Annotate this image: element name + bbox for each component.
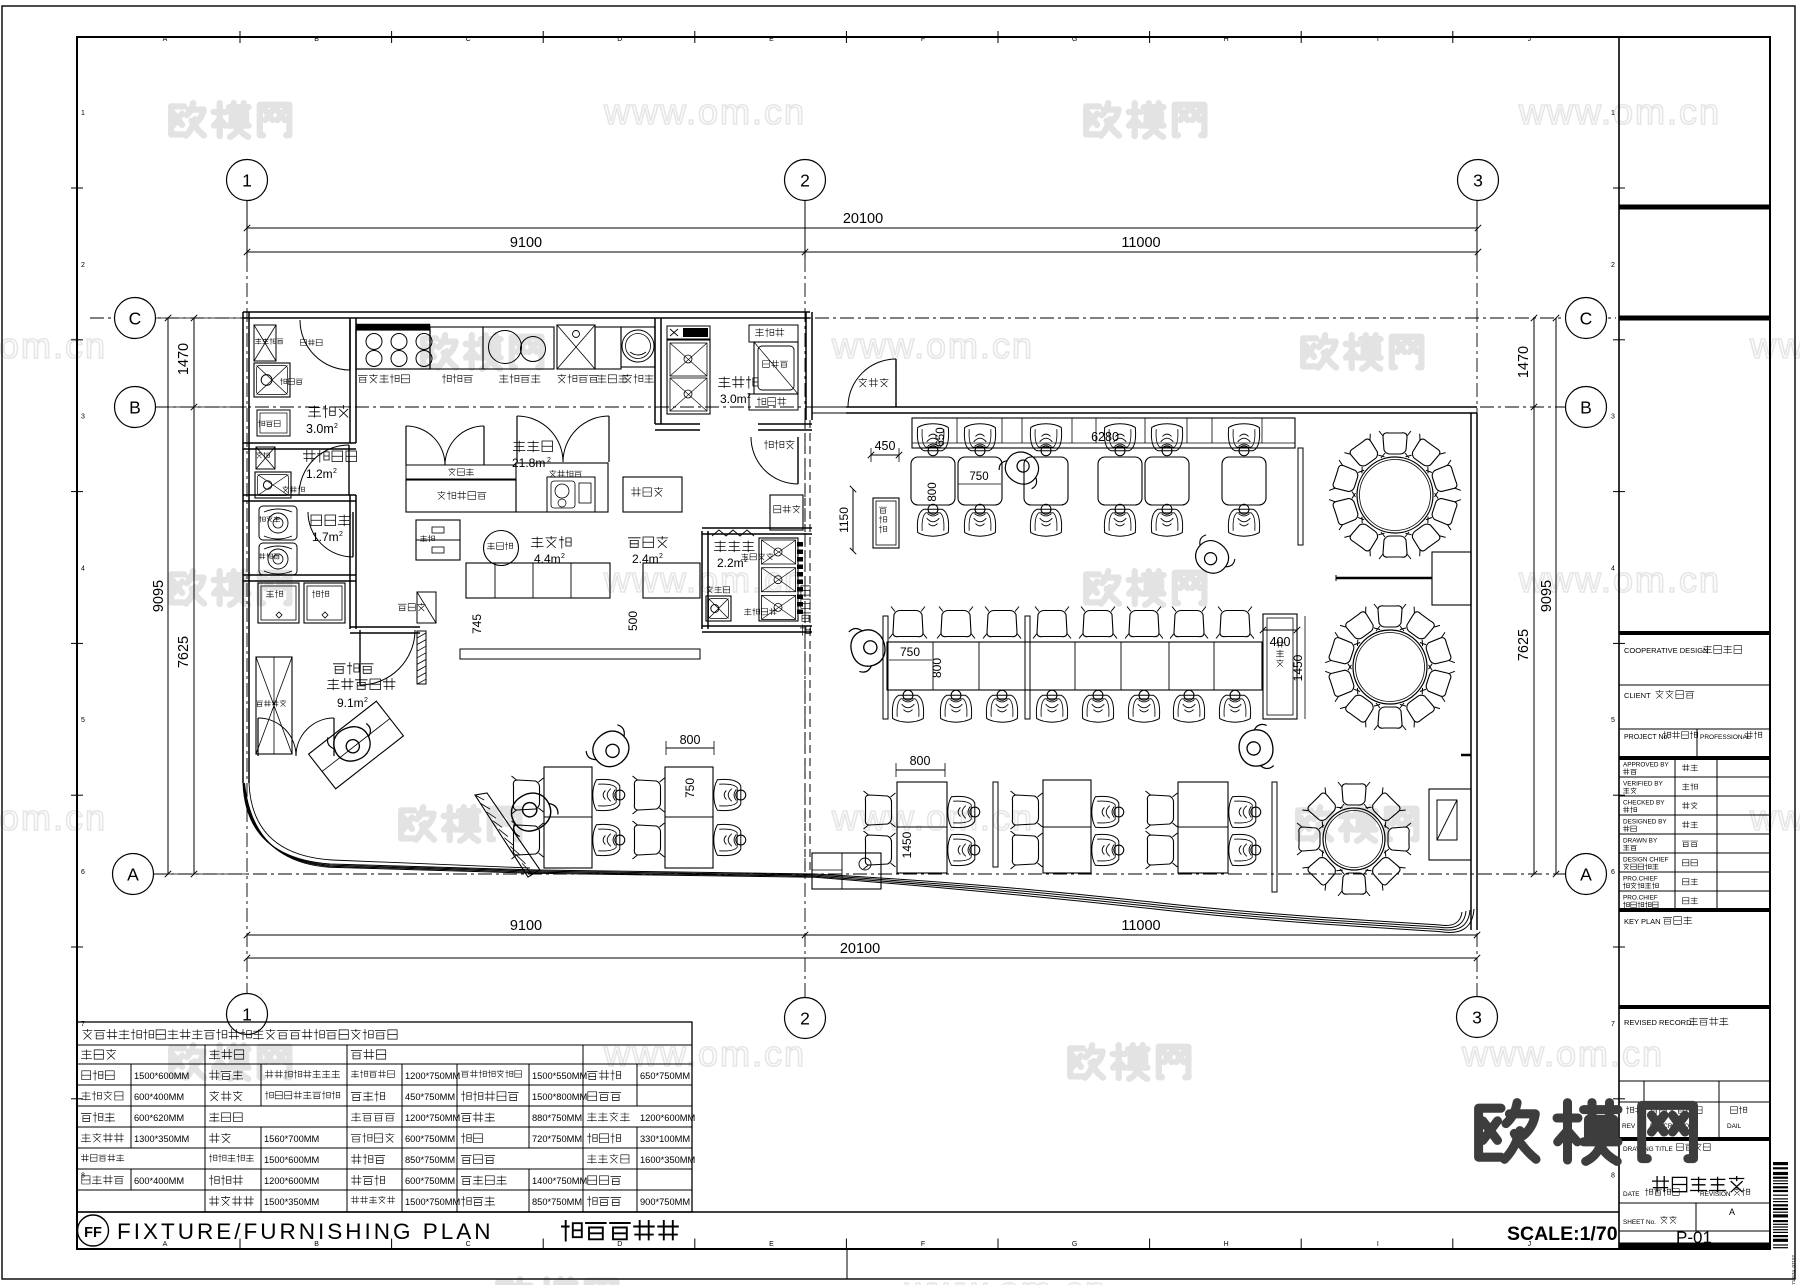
- svg-text:SCALE:1/70: SCALE:1/70: [1507, 1223, 1618, 1245]
- svg-text:APPROVED BY: APPROVED BY: [1623, 762, 1670, 769]
- svg-text:745: 745: [470, 614, 484, 634]
- svg-text:4.4m: 4.4m: [534, 552, 561, 566]
- steam oven 2: [304, 583, 345, 623]
- svg-text:1.7m: 1.7m: [312, 530, 339, 544]
- dough mixer 1: [259, 506, 297, 540]
- svg-text:SHEET No.: SHEET No.: [1623, 1219, 1656, 1226]
- rough process three-compartment sink: [759, 538, 798, 621]
- svg-text:1470: 1470: [176, 343, 192, 375]
- svg-text:800: 800: [930, 658, 944, 678]
- svg-text:750: 750: [969, 471, 988, 483]
- cashier station: [812, 853, 881, 889]
- svg-text:20100: 20100: [840, 941, 880, 957]
- worktable 2: [595, 327, 621, 369]
- grid bubble C left: [115, 298, 156, 339]
- changing room label: [303, 450, 357, 463]
- right dimension 7625: [1533, 407, 1535, 874]
- watermark row 6 hanzi partial: [498, 1279, 531, 1285]
- svg-text:1600*350MM: 1600*350MM: [640, 1155, 695, 1165]
- sink station label: [558, 374, 599, 384]
- niche upper right: [1432, 552, 1471, 605]
- grid bubble B left: [115, 387, 156, 428]
- middle counter band: [887, 642, 1262, 690]
- bottom table group 3: [1178, 782, 1228, 873]
- title block left edge: [1618, 37, 1620, 1249]
- svg-text:2: 2: [334, 423, 338, 430]
- svg-text:850*750MM: 850*750MM: [532, 1197, 582, 1207]
- svg-text:4: 4: [81, 565, 85, 572]
- wall dining right exterior: [1470, 413, 1472, 930]
- dough room partition horizontal: [243, 574, 356, 576]
- bottom table group 1: [897, 782, 947, 873]
- svg-text:www.om.cn: www.om.cn: [831, 325, 1034, 366]
- walking person top center: [997, 444, 1048, 491]
- svg-text:B: B: [1580, 398, 1592, 418]
- dishwash sinks column: [667, 340, 710, 414]
- bottom center division line: [846, 1249, 848, 1279]
- svg-text:9095: 9095: [151, 580, 167, 612]
- equipment table data cells: [82, 1070, 114, 1081]
- svg-text:3: 3: [1472, 1008, 1482, 1028]
- ice machine: [257, 410, 290, 436]
- middle chairs top: [889, 607, 927, 639]
- svg-text:20100: 20100: [843, 211, 883, 227]
- svg-text:DESIGNED BY: DESIGNED BY: [1623, 819, 1667, 826]
- watermark row 3 hanzi b: [1086, 571, 1119, 603]
- fire shutter dashed line: [804, 420, 806, 875]
- grid line 2 vertical: [804, 200, 806, 258]
- svg-text:C: C: [129, 309, 142, 329]
- svg-text:1: 1: [242, 171, 252, 191]
- dimension 450: [871, 454, 899, 456]
- svg-text:1200*750MM: 1200*750MM: [405, 1071, 460, 1081]
- svg-text:2: 2: [364, 697, 368, 704]
- grid bubble 1 bottom: [227, 994, 268, 1035]
- svg-text:www.om.cn: www.om.cn: [1749, 325, 1800, 366]
- svg-text:www.om.cn: www.om.cn: [1461, 1033, 1664, 1074]
- svg-text:1500*550MM: 1500*550MM: [532, 1071, 587, 1081]
- equipment table column lines: [204, 1045, 206, 1064]
- svg-text:1500*600MM: 1500*600MM: [134, 1071, 189, 1081]
- right dimension 9095: [1555, 318, 1557, 874]
- watermark row 1 hanzi: [171, 103, 204, 135]
- steamed bun room double door: [257, 718, 259, 756]
- svg-text:www.om.cn: www.om.cn: [831, 797, 1034, 838]
- svg-text:A: A: [1729, 1207, 1735, 1217]
- svg-text:A: A: [163, 36, 168, 43]
- round table 1 with 10 chairs: [1357, 457, 1433, 533]
- svg-text:8: 8: [1611, 1173, 1615, 1180]
- svg-text:E: E: [769, 36, 774, 43]
- title block thick separator bars: [1619, 205, 1770, 210]
- svg-text:J: J: [1528, 36, 1532, 43]
- worktable 1: [430, 327, 483, 369]
- middle screen partition left: [883, 616, 888, 719]
- svg-text:DATE: DATE: [1623, 1191, 1640, 1198]
- svg-text:www.om.cn: www.om.cn: [904, 1269, 1107, 1285]
- svg-text:CLIENT: CLIENT: [1624, 691, 1651, 700]
- worker figure at handwork table: [325, 721, 378, 768]
- pass counter lower: [460, 649, 700, 659]
- svg-text:1400*750MM: 1400*750MM: [532, 1176, 587, 1186]
- svg-text:1500*750MM: 1500*750MM: [405, 1197, 460, 1207]
- partition wall right of booths: [1298, 448, 1303, 545]
- steamed bun area label: [333, 662, 374, 675]
- bottom dimension 9100: [247, 934, 805, 936]
- pan-fry circle station: [484, 531, 519, 566]
- svg-text:720*750MM: 720*750MM: [532, 1134, 582, 1144]
- svg-text:1450: 1450: [900, 831, 914, 858]
- big dark hanzi watermark bottom right: [1479, 1103, 1536, 1160]
- equipment table header cells: [81, 1049, 116, 1060]
- worktable 1 label: [442, 374, 473, 384]
- changing room door: [299, 445, 349, 495]
- service counter right: [873, 498, 899, 548]
- grid line C horizontal: [90, 317, 1616, 319]
- svg-text:1450: 1450: [1291, 654, 1305, 681]
- svg-text:B: B: [314, 36, 319, 43]
- svg-text:880*750MM: 880*750MM: [532, 1113, 582, 1123]
- svg-text:6: 6: [81, 869, 85, 876]
- svg-text:P-01: P-01: [1676, 1228, 1712, 1247]
- svg-text:900*750MM: 900*750MM: [640, 1197, 690, 1207]
- bottom dimension 11000: [805, 934, 1477, 936]
- svg-text:H: H: [1224, 36, 1229, 43]
- svg-text:C: C: [1580, 309, 1593, 329]
- svg-text:750: 750: [683, 778, 697, 798]
- bottom dimension 20100: [247, 957, 1477, 959]
- kitchen island doors: [405, 426, 407, 465]
- svg-text:VERIFIED BY: VERIFIED BY: [1623, 781, 1664, 788]
- changing room cabinet: [256, 447, 275, 469]
- svg-text:2: 2: [339, 531, 343, 538]
- watermark row 2 hanzi: [423, 335, 456, 367]
- grid bubble A left: [113, 854, 154, 895]
- svg-text:DESIGN CHIEF: DESIGN CHIEF: [1623, 857, 1669, 864]
- svg-text:3: 3: [81, 414, 85, 421]
- grid line A horizontal: [153, 873, 1566, 875]
- rough process zigzag: [712, 530, 754, 536]
- dishwash room divider: [654, 318, 656, 424]
- svg-text:DRAWING TITLE: DRAWING TITLE: [1623, 1146, 1673, 1153]
- svg-text:9100: 9100: [510, 235, 542, 251]
- rough process labels: [714, 541, 755, 553]
- grid bubble 3 bottom: [1457, 997, 1498, 1038]
- grid bubble 1 top: [227, 160, 268, 201]
- svg-text:1300*350MM: 1300*350MM: [134, 1134, 189, 1144]
- left dimension 9095: [167, 318, 169, 874]
- dough mixer 2: [259, 543, 297, 575]
- equipment table row lines: [77, 1044, 692, 1046]
- svg-text:600*750MM: 600*750MM: [405, 1176, 455, 1186]
- dough room door: [308, 512, 353, 557]
- rice steamer: [621, 327, 655, 367]
- booth bench diners: [917, 424, 948, 456]
- svg-text:1: 1: [242, 1005, 252, 1025]
- service counter label: [628, 536, 668, 548]
- power cabinet: [417, 592, 436, 623]
- svg-text:6280: 6280: [1091, 430, 1119, 444]
- svg-text:1.2m: 1.2m: [306, 467, 333, 481]
- fire door top right: [848, 359, 896, 407]
- svg-text:2.4m: 2.4m: [632, 552, 659, 566]
- svg-text:PROJECT No.: PROJECT No.: [1624, 734, 1669, 741]
- svg-text:PRO.CHIEF: PRO.CHIEF: [1623, 895, 1658, 902]
- svg-text:600*750MM: 600*750MM: [405, 1134, 455, 1144]
- wall stub upper: [1336, 577, 1432, 580]
- svg-text:1200*600MM: 1200*600MM: [264, 1176, 319, 1186]
- dough room partition vertical: [349, 495, 351, 575]
- storefront curve multiline: [243, 783, 1440, 925]
- bottom title strip line: [77, 1211, 1619, 1213]
- svg-text:650*750MM: 650*750MM: [640, 1071, 690, 1081]
- dough room label: [311, 515, 351, 527]
- svg-text:www.om.cn: www.om.cn: [0, 797, 107, 838]
- clean dish counter top: [749, 325, 798, 342]
- grid bubble C right: [1566, 298, 1607, 339]
- undercounter fridges: [416, 520, 460, 560]
- svg-text:7625: 7625: [176, 636, 192, 668]
- walking person dining left: [583, 722, 639, 776]
- handwork table rotated: [309, 701, 404, 789]
- svg-text:CHECKED BY: CHECKED BY: [1623, 800, 1665, 807]
- svg-text:H: H: [1224, 1241, 1229, 1248]
- round table 3 with 8 chairs: [1323, 808, 1385, 870]
- booth chairs row with diners: [917, 504, 948, 536]
- right dimension 1470: [1533, 318, 1535, 407]
- hot kitchen label: [513, 441, 553, 453]
- svg-text:600*400MM: 600*400MM: [134, 1176, 184, 1186]
- svg-text:1: 1: [1611, 110, 1615, 117]
- svg-text:21.8m: 21.8m: [512, 456, 545, 470]
- wall stub lower right: [1461, 754, 1471, 757]
- walking person near entry: [501, 784, 561, 840]
- hatched storefront diagonal wall: [475, 793, 540, 877]
- svg-text:4: 4: [1611, 565, 1615, 572]
- svg-text:1: 1: [81, 110, 85, 117]
- cold room label: [308, 405, 350, 418]
- middle screen partition center: [1025, 616, 1030, 719]
- svg-text:7: 7: [1611, 1021, 1615, 1028]
- niche lower right with vent: [1429, 789, 1471, 860]
- worktable 2 label: [597, 375, 628, 384]
- svg-text:www.om.cn: www.om.cn: [603, 1033, 806, 1074]
- bottom edge tick marks: [239, 1239, 241, 1249]
- round table 2 with 10 chairs: [1353, 630, 1427, 704]
- svg-text:2: 2: [1611, 262, 1615, 269]
- single sink station: [557, 325, 595, 369]
- wall kitchen right / dishwash right: [805, 312, 807, 420]
- svg-text:5: 5: [1611, 717, 1615, 724]
- grid bubble 2 bottom: [785, 998, 826, 1039]
- watermark row 4 hanzi b: [1298, 807, 1331, 839]
- watermark row 3 hanzi: [171, 571, 204, 603]
- bottom title hanzi plan name: [561, 1220, 679, 1242]
- four-top table left 1: [544, 767, 592, 868]
- pass counters: [466, 563, 610, 598]
- hatched wall pier: [417, 631, 426, 684]
- svg-text:5: 5: [81, 717, 85, 724]
- svg-text:800: 800: [680, 733, 701, 747]
- svg-text:KEY PLAN: KEY PLAN: [1624, 917, 1661, 926]
- svg-text:400: 400: [1270, 635, 1291, 649]
- equipment table outer frame: [77, 1022, 692, 1212]
- bottom table group 2: [1043, 780, 1091, 873]
- svg-text:11000: 11000: [1121, 918, 1160, 934]
- svg-text:1560*700MM: 1560*700MM: [264, 1134, 319, 1144]
- svg-text:3: 3: [1473, 171, 1483, 191]
- cold room partition vertical: [349, 318, 351, 443]
- svg-text:6: 6: [1611, 869, 1615, 876]
- grid line B horizontal: [155, 406, 1566, 408]
- title block revision grid: [1619, 1080, 1770, 1082]
- rough process small sink: [706, 596, 731, 621]
- dims 400 1450: [1263, 629, 1297, 631]
- grid bubble 2 top: [785, 160, 826, 201]
- FF circle symbol: [78, 1215, 109, 1246]
- steamed bun room cabinet: [256, 657, 292, 754]
- sink comb handles: [797, 542, 803, 547]
- pan-fry area label: [531, 536, 571, 549]
- svg-text:450*750MM: 450*750MM: [405, 1092, 455, 1102]
- changing room sink: [255, 472, 291, 498]
- svg-text:1470: 1470: [1516, 346, 1532, 378]
- svg-text:134857.2713s34..07152: 134857.2713s34..07152: [1791, 1255, 1796, 1285]
- svg-text:www.om.cn: www.om.cn: [0, 325, 107, 366]
- svg-text:1500*350MM: 1500*350MM: [264, 1197, 319, 1207]
- cold room partition horizontal: [243, 442, 356, 444]
- left dimension extension lines: [156, 317, 247, 319]
- grid bubble A right: [1566, 854, 1607, 895]
- svg-text:I: I: [1377, 1241, 1379, 1248]
- svg-text:750: 750: [900, 645, 920, 659]
- svg-text:1150: 1150: [837, 507, 851, 533]
- screen partition bottom 1: [993, 782, 998, 867]
- svg-text:2: 2: [547, 457, 551, 464]
- svg-text:DRAWN BY: DRAWN BY: [1623, 838, 1658, 845]
- barcode: [1773, 1162, 1788, 1165]
- four-top table left 2: [665, 767, 713, 868]
- entry area inner lines: [249, 783, 530, 868]
- clean bowl counter: [749, 394, 798, 410]
- dishwashing machine: [754, 342, 798, 394]
- svg-text:D: D: [617, 1241, 622, 1248]
- svg-text:DAIL: DAIL: [1727, 1123, 1742, 1130]
- svg-text:600*620MM: 600*620MM: [134, 1113, 184, 1123]
- wall left exterior: [242, 312, 244, 783]
- svg-text:FIXTURE/FURNISHING PLAN: FIXTURE/FURNISHING PLAN: [117, 1219, 494, 1244]
- grid line 3 vertical: [1476, 200, 1478, 258]
- island fridge cabinet: [406, 480, 516, 512]
- steamer label: [624, 374, 654, 384]
- svg-text:500: 500: [626, 611, 640, 631]
- svg-text:C: C: [466, 36, 471, 43]
- svg-text:REV: REV: [1622, 1123, 1636, 1130]
- svg-text:B: B: [129, 398, 141, 418]
- steam oven 1: [258, 583, 299, 623]
- svg-text:F: F: [921, 1241, 925, 1248]
- watermark row 2 hanzi b: [1303, 335, 1336, 367]
- island right block: [516, 463, 608, 512]
- dishwash room label: [718, 376, 758, 389]
- svg-text:3: 3: [1611, 414, 1615, 421]
- watermark row 5 hanzi b: [1070, 1045, 1103, 1077]
- svg-text:3.0m: 3.0m: [306, 422, 334, 436]
- svg-text:PROFESSIONAL: PROFESSIONAL: [1700, 734, 1751, 741]
- booth bench band: [912, 418, 1295, 448]
- svg-text:www.om.cn: www.om.cn: [1749, 797, 1800, 838]
- grid line 1 vertical: [246, 200, 248, 258]
- wall top kitchen: [243, 311, 810, 313]
- svg-text:330*100MM: 330*100MM: [640, 1134, 690, 1144]
- svg-text:1500*800MM: 1500*800MM: [532, 1092, 587, 1102]
- booth tables row: [911, 457, 955, 505]
- svg-text:11000: 11000: [1121, 235, 1160, 251]
- kitchen inner wall horizontal low: [350, 626, 420, 628]
- svg-text:G: G: [1072, 36, 1077, 43]
- svg-text:2: 2: [800, 171, 810, 191]
- svg-text:REVISION: REVISION: [1700, 1191, 1731, 1198]
- cold room cabinet: [254, 325, 276, 361]
- range hood black bar: [356, 324, 430, 330]
- svg-text:2: 2: [81, 262, 85, 269]
- walking person center: [846, 622, 890, 674]
- top dimension 11000: [805, 251, 1478, 253]
- wok label: [499, 374, 540, 384]
- svg-text:600*400MM: 600*400MM: [134, 1092, 184, 1102]
- double wok range: [483, 327, 554, 369]
- right edge tick marks: [1613, 187, 1625, 189]
- disinfect cabinet: [623, 477, 682, 512]
- svg-text:3.0m: 3.0m: [720, 392, 747, 406]
- walking person middle bottom: [1236, 723, 1277, 773]
- svg-text:www.om.cn: www.om.cn: [603, 91, 806, 132]
- watermark row 4 hanzi: [401, 807, 434, 839]
- svg-text:2: 2: [800, 1009, 810, 1029]
- dishwasher black top: [667, 326, 710, 339]
- dishwash room bottom wall: [655, 423, 700, 425]
- cold room sink: [254, 363, 290, 397]
- svg-text:A: A: [1580, 865, 1592, 885]
- grid bubble 3 top: [1458, 160, 1499, 201]
- top dimension 9100: [247, 251, 805, 253]
- fire shutter vertical label: [800, 586, 811, 636]
- top edge tick marks: [239, 31, 241, 43]
- svg-text:9.1m: 9.1m: [337, 696, 364, 710]
- middle chairs bottom with diners: [892, 690, 923, 722]
- watermark row 1 hanzi b: [1086, 103, 1119, 135]
- svg-text:1500*600MM: 1500*600MM: [264, 1155, 319, 1165]
- island shelf: [406, 465, 516, 479]
- screen partition bottom 2: [1272, 782, 1277, 892]
- svg-text:G: G: [1072, 1241, 1077, 1248]
- svg-text:F: F: [921, 36, 925, 43]
- svg-text:D: D: [617, 36, 622, 43]
- svg-text:2: 2: [333, 468, 337, 475]
- svg-text:I: I: [1377, 36, 1379, 43]
- walking person right of tables: [1186, 532, 1237, 582]
- svg-text:9095: 9095: [1539, 580, 1555, 612]
- rough-process room walls: [701, 531, 703, 629]
- steamed bun area door: [360, 630, 415, 685]
- left edge tick marks: [71, 187, 83, 189]
- changing room partition horizontal: [243, 494, 356, 496]
- svg-text:2: 2: [659, 553, 663, 560]
- svg-text:850*750MM: 850*750MM: [405, 1155, 455, 1165]
- svg-text:2: 2: [561, 553, 565, 560]
- kitchen inner wall vertical: [349, 575, 351, 629]
- left dimension 1470: [193, 318, 195, 407]
